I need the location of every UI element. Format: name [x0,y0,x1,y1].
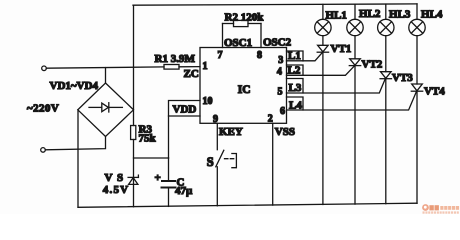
wire HL2 to VT2 [354,36,356,59]
svg-text:KEY: KEY [219,126,243,138]
KEY pin [217,123,243,149]
svg-text:8: 8 [257,50,262,61]
thyristor VT4 [411,84,445,97]
svg-text:HL2: HL2 [359,8,381,20]
wire OSC1 pin riser [222,24,224,48]
svg-text:HL3: HL3 [389,9,411,21]
terminal bottom AC [41,148,46,153]
wire VT3 cathode to ground rail [385,79,387,204]
svg-text:ZC: ZC [184,68,199,80]
svg-text:VT2: VT2 [362,59,383,71]
svg-text:7: 7 [218,50,223,61]
wire R3 bottom to VDD node and zener [133,140,135,185]
wire switch to ground rail [216,167,218,206]
resistor R3 [131,124,157,145]
svg-text:HL4: HL4 [421,9,443,21]
svg-text:10: 10 [203,96,213,107]
svg-text:S: S [207,155,214,169]
svg-text:1: 1 [203,61,208,72]
L4 pin tab [287,97,304,112]
svg-text:4: 4 [277,67,282,78]
L1 pin tab [287,50,304,62]
resistor R2 120k [223,12,265,27]
lamp HL1 [315,4,347,35]
wire R1 to IC pin 1 [179,66,200,68]
wire HL1 to VT1 [322,36,324,46]
svg-text:2: 2 [268,114,273,125]
wire HL4 to VT4 [416,36,418,84]
svg-text:+: + [155,172,161,184]
wire HL3 to VT3 [385,36,387,72]
svg-text:47μ: 47μ [175,185,193,197]
VSS pin wire to ground rail [273,123,295,205]
svg-text:VD1~VD4: VD1~VD4 [50,80,99,92]
L3 pin tab [287,79,304,95]
wire bridge negative corner to ground rail [77,110,79,208]
switch S [207,150,237,169]
wire VDD node horizontal [134,157,169,159]
svg-text:R1 3.9M: R1 3.9M [155,53,196,65]
wire L4 to VT4 gate [287,91,417,110]
svg-text:3: 3 [278,55,283,66]
svg-text:OSC1: OSC1 [224,37,252,49]
wire L3 to VT3 gate [287,79,386,93]
svg-text:4.5V: 4.5V [103,184,130,196]
L2 pin tab [287,64,304,76]
wire zener anode to ground rail [133,184,135,206]
wire main positive bus (top rail down through bridge + corner to R3) [133,5,135,125]
svg-text:HL1: HL1 [326,9,347,21]
svg-text:L1: L1 [288,50,301,62]
wire OSC2 pin riser [260,24,262,48]
thyristor VT1 [317,43,351,55]
watermark logo [422,204,459,214]
wire L2 to VT2 gate [287,66,355,75]
svg-text:VS: VS [105,172,128,184]
wire bridge top corner stub [105,68,107,83]
svg-text:VT3: VT3 [392,72,413,84]
wire bottom AC line to bridge [45,137,105,150]
svg-text:VT4: VT4 [424,85,445,97]
zener VS [103,172,139,196]
wire VT4 cathode to ground rail [416,91,418,203]
thyristor VT3 [380,72,413,84]
wire top DC+ rail [133,4,417,5]
VDD pin box [169,101,201,117]
lamp HL3 [378,4,411,36]
terminal top AC [27,66,59,114]
lamp HL4 [409,4,443,36]
wire VT2 cathode to ground rail [354,66,356,205]
wire top AC line to R1 and ZC [46,67,164,68]
wire L1 to VT1 gate [287,53,323,61]
svg-text:5: 5 [278,87,283,98]
svg-text:75k: 75k [139,133,157,145]
wire VDD pin riser [168,116,170,158]
bridge rectifier VD1~VD4 [50,80,134,137]
svg-text:VDD: VDD [173,104,197,116]
svg-text:~220V: ~220V [27,102,59,114]
lamp HL2 [347,4,381,35]
thyristor VT2 [349,59,382,71]
svg-text:VT1: VT1 [331,43,352,55]
svg-text:IC: IC [238,84,251,96]
wire bottom ground rail [78,203,417,207]
svg-text:R2 120k: R2 120k [225,12,265,24]
IC U1 body [200,48,287,124]
resistor R1 3.9M [155,53,196,69]
svg-text:6: 6 [280,106,285,117]
svg-text:L2: L2 [288,64,301,76]
wire VT1 cathode to ground rail [322,52,324,204]
svg-text:VSS: VSS [275,126,295,138]
svg-text:OSC2: OSC2 [263,37,292,49]
capacitor C 47u [155,158,194,206]
